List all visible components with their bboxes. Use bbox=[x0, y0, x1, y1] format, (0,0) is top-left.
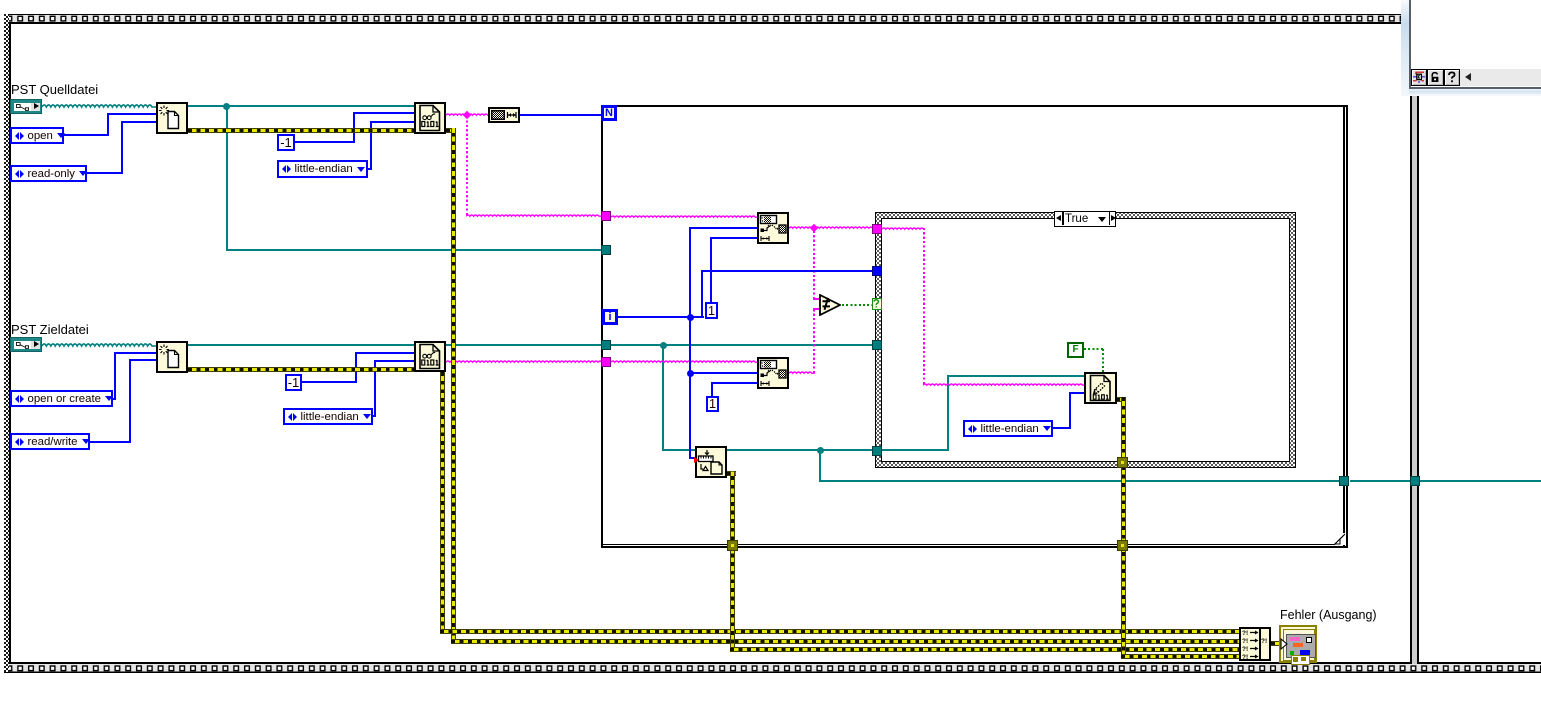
wire: blue little-endian row2 bbox=[373, 415, 376, 417]
wire: blue -1 row1 bbox=[295, 141, 355, 143]
enum little-endian case bbox=[963, 420, 1053, 437]
read binary file node row1 bbox=[414, 102, 446, 134]
palette window top-right bbox=[1401, 0, 1410, 96]
wire: blue -1 row2 bbox=[302, 381, 357, 383]
while loop right border bbox=[1410, 95, 1419, 664]
not equal node bbox=[819, 294, 841, 316]
string subset node 2 bbox=[757, 357, 789, 389]
palette toolbar bbox=[1411, 69, 1541, 86]
wire: error setpos bottom run bbox=[730, 647, 1240, 652]
svg-text:?!: ?! bbox=[1242, 638, 1248, 645]
wire junction bbox=[660, 342, 667, 349]
for loop N terminal bbox=[601, 105, 617, 121]
wire: magenta vertical to neq top bbox=[813, 228, 815, 299]
wire: error setpos stub bbox=[727, 471, 736, 476]
wire: magenta vertical neq bottom bbox=[813, 309, 815, 373]
while loop bottom border bbox=[4, 662, 1541, 673]
wire: magenta read1 to strlen bbox=[446, 111, 488, 117]
wire: error read2 vertical bbox=[440, 372, 445, 634]
wire: green neq to selector bbox=[842, 304, 872, 306]
while border tunnel teal bbox=[1410, 476, 1420, 486]
wire: teal row2 read to for loop bbox=[446, 344, 602, 346]
while loop top border bbox=[4, 14, 1401, 24]
wire junction bbox=[817, 447, 824, 454]
for loop border bbox=[601, 105, 603, 548]
wire: error row1 open-read bbox=[188, 128, 414, 133]
enum open bbox=[10, 127, 64, 144]
wire: path zigzag row2 bbox=[42, 341, 156, 348]
case tunnel magenta bbox=[872, 224, 882, 234]
open/create/replace file node row1 bbox=[156, 102, 188, 134]
case tunnel teal 1 bbox=[872, 340, 882, 350]
wire: teal row2 open to read bbox=[188, 344, 414, 346]
for loop bottom tunnel error 1 bbox=[727, 540, 738, 551]
for loop tunnel teal row1 bbox=[601, 245, 611, 255]
for loop i terminal bbox=[602, 309, 618, 325]
string subset node 1 bbox=[757, 212, 789, 244]
wire: blue little-endian row1 bbox=[368, 168, 372, 170]
wire: teal vertical branch bbox=[226, 106, 228, 250]
case tunnel teal 2 bbox=[872, 446, 882, 456]
string length node bbox=[488, 107, 520, 123]
wire: blue little-endian case bbox=[1053, 427, 1071, 429]
case selector label bbox=[1054, 211, 1116, 227]
wire: teal vertical down bbox=[819, 450, 821, 481]
wire: teal to right edge bbox=[1419, 480, 1541, 482]
enum read/write bbox=[10, 433, 90, 450]
error out indicator Fehler bbox=[1279, 625, 1317, 663]
svg-text:?!: ?! bbox=[1242, 630, 1248, 637]
wire: magenta inside case bbox=[882, 225, 925, 231]
wire: error merge out bbox=[1271, 641, 1280, 646]
wire: teal row1 open to read bbox=[188, 105, 414, 107]
wire junction magenta bbox=[810, 224, 818, 232]
wire: error write vertical bbox=[1121, 397, 1126, 659]
read binary file node row2 bbox=[414, 341, 446, 372]
path control PST Zieldatei bbox=[10, 337, 42, 352]
wire: blue const 1 row a bbox=[710, 237, 712, 302]
wire: magenta row2 read to for loop bbox=[446, 358, 602, 364]
wire: error read1 bottom run bbox=[451, 639, 1240, 644]
wire junction magenta bbox=[463, 111, 471, 119]
wire: error read1 stub bbox=[446, 128, 455, 133]
enum little-endian row2 bbox=[283, 408, 373, 425]
wire: blue open enum bbox=[64, 134, 109, 136]
for loop right tunnel teal bbox=[1339, 476, 1349, 486]
wire: magenta vertical bbox=[466, 115, 468, 215]
numeric constant -1 row2 bbox=[285, 374, 302, 391]
wire: teal long to for loop right tunnel bbox=[819, 480, 1340, 482]
palette collapse arrow bbox=[1465, 73, 1471, 81]
numeric constant -1 row1 bbox=[277, 134, 295, 151]
palette button diagram bbox=[1411, 69, 1427, 86]
label PST Zieldatei bbox=[11, 322, 89, 337]
F boolean constant bbox=[1067, 342, 1084, 358]
case structure border bbox=[875, 212, 1296, 468]
for loop tunnel magenta row1 bbox=[601, 211, 611, 221]
enum read-only bbox=[10, 165, 87, 182]
wire: blue riser x702 to case bbox=[701, 270, 703, 318]
wire: teal inside for loop to case bbox=[611, 344, 875, 346]
enum little-endian row1 bbox=[277, 160, 368, 178]
wire junction bbox=[223, 103, 230, 110]
wire: teal vertical to set position bbox=[662, 345, 664, 450]
wire: magenta inside for loop row2 bbox=[611, 358, 758, 364]
palette button help bbox=[1444, 69, 1460, 86]
wire: teal to for loop tunnel bbox=[226, 249, 602, 251]
wire: error setpos vertical bbox=[730, 471, 735, 652]
path control PST Quelldatei bbox=[10, 99, 42, 114]
wire: error row2 open-read bbox=[188, 367, 414, 372]
wire: blue const 1 row b bbox=[711, 382, 713, 396]
wire: error read1 vertical bbox=[451, 128, 456, 644]
wire: error write stub bbox=[1116, 397, 1126, 402]
wire: blue open-or-create bbox=[113, 398, 116, 400]
wire: error read2 bottom run bbox=[440, 629, 1239, 634]
const 1 b bbox=[706, 396, 719, 412]
wire: magenta subset1 out bbox=[789, 224, 875, 230]
svg-text:?!: ?! bbox=[1242, 654, 1248, 659]
wire: blue read/write bbox=[90, 441, 131, 443]
wire: teal to case bottom tunnel bbox=[662, 449, 872, 451]
wire: teal between tunnels bbox=[1350, 480, 1410, 482]
palette button lock bbox=[1427, 69, 1443, 86]
wire: magenta to for loop tunnel bbox=[466, 212, 602, 218]
wire: path zigzag row1 bbox=[42, 102, 156, 109]
write binary file node bbox=[1084, 372, 1117, 404]
wire: blue read-only enum bbox=[87, 172, 123, 174]
wire: magenta inside for loop to subset1 bbox=[611, 213, 758, 219]
label Fehler (Ausgang) bbox=[1280, 608, 1377, 622]
const 1 a bbox=[705, 302, 718, 319]
label PST Quelldatei bbox=[11, 82, 98, 97]
for loop bottom tunnel error 2 bbox=[1117, 540, 1128, 551]
wire: teal inside case bbox=[882, 449, 949, 451]
wire: blue i wire bbox=[618, 316, 704, 318]
wire: blue strlen to N bbox=[520, 114, 601, 116]
wire: green F constant bbox=[1084, 348, 1104, 350]
set file position node bbox=[695, 446, 727, 478]
for loop tunnel teal row2 bbox=[601, 340, 611, 350]
case bottom tunnel error bbox=[1117, 457, 1128, 468]
svg-text:?!: ?! bbox=[1242, 646, 1248, 653]
case tunnel blue bbox=[872, 266, 882, 276]
open/create/replace file node row2 bbox=[156, 341, 188, 373]
enum open or create bbox=[10, 390, 113, 407]
wire: blue riser x690 bbox=[689, 227, 691, 459]
wire: magenta subset2 out bbox=[789, 369, 815, 375]
while loop left border bbox=[4, 14, 9, 672]
for loop tunnel magenta row2 bbox=[601, 357, 611, 367]
for loop page curl bbox=[1334, 533, 1345, 545]
case selector tunnel bbox=[872, 298, 882, 310]
wire: error write bottom run bbox=[1121, 654, 1240, 659]
merge errors node bbox=[1239, 627, 1271, 661]
